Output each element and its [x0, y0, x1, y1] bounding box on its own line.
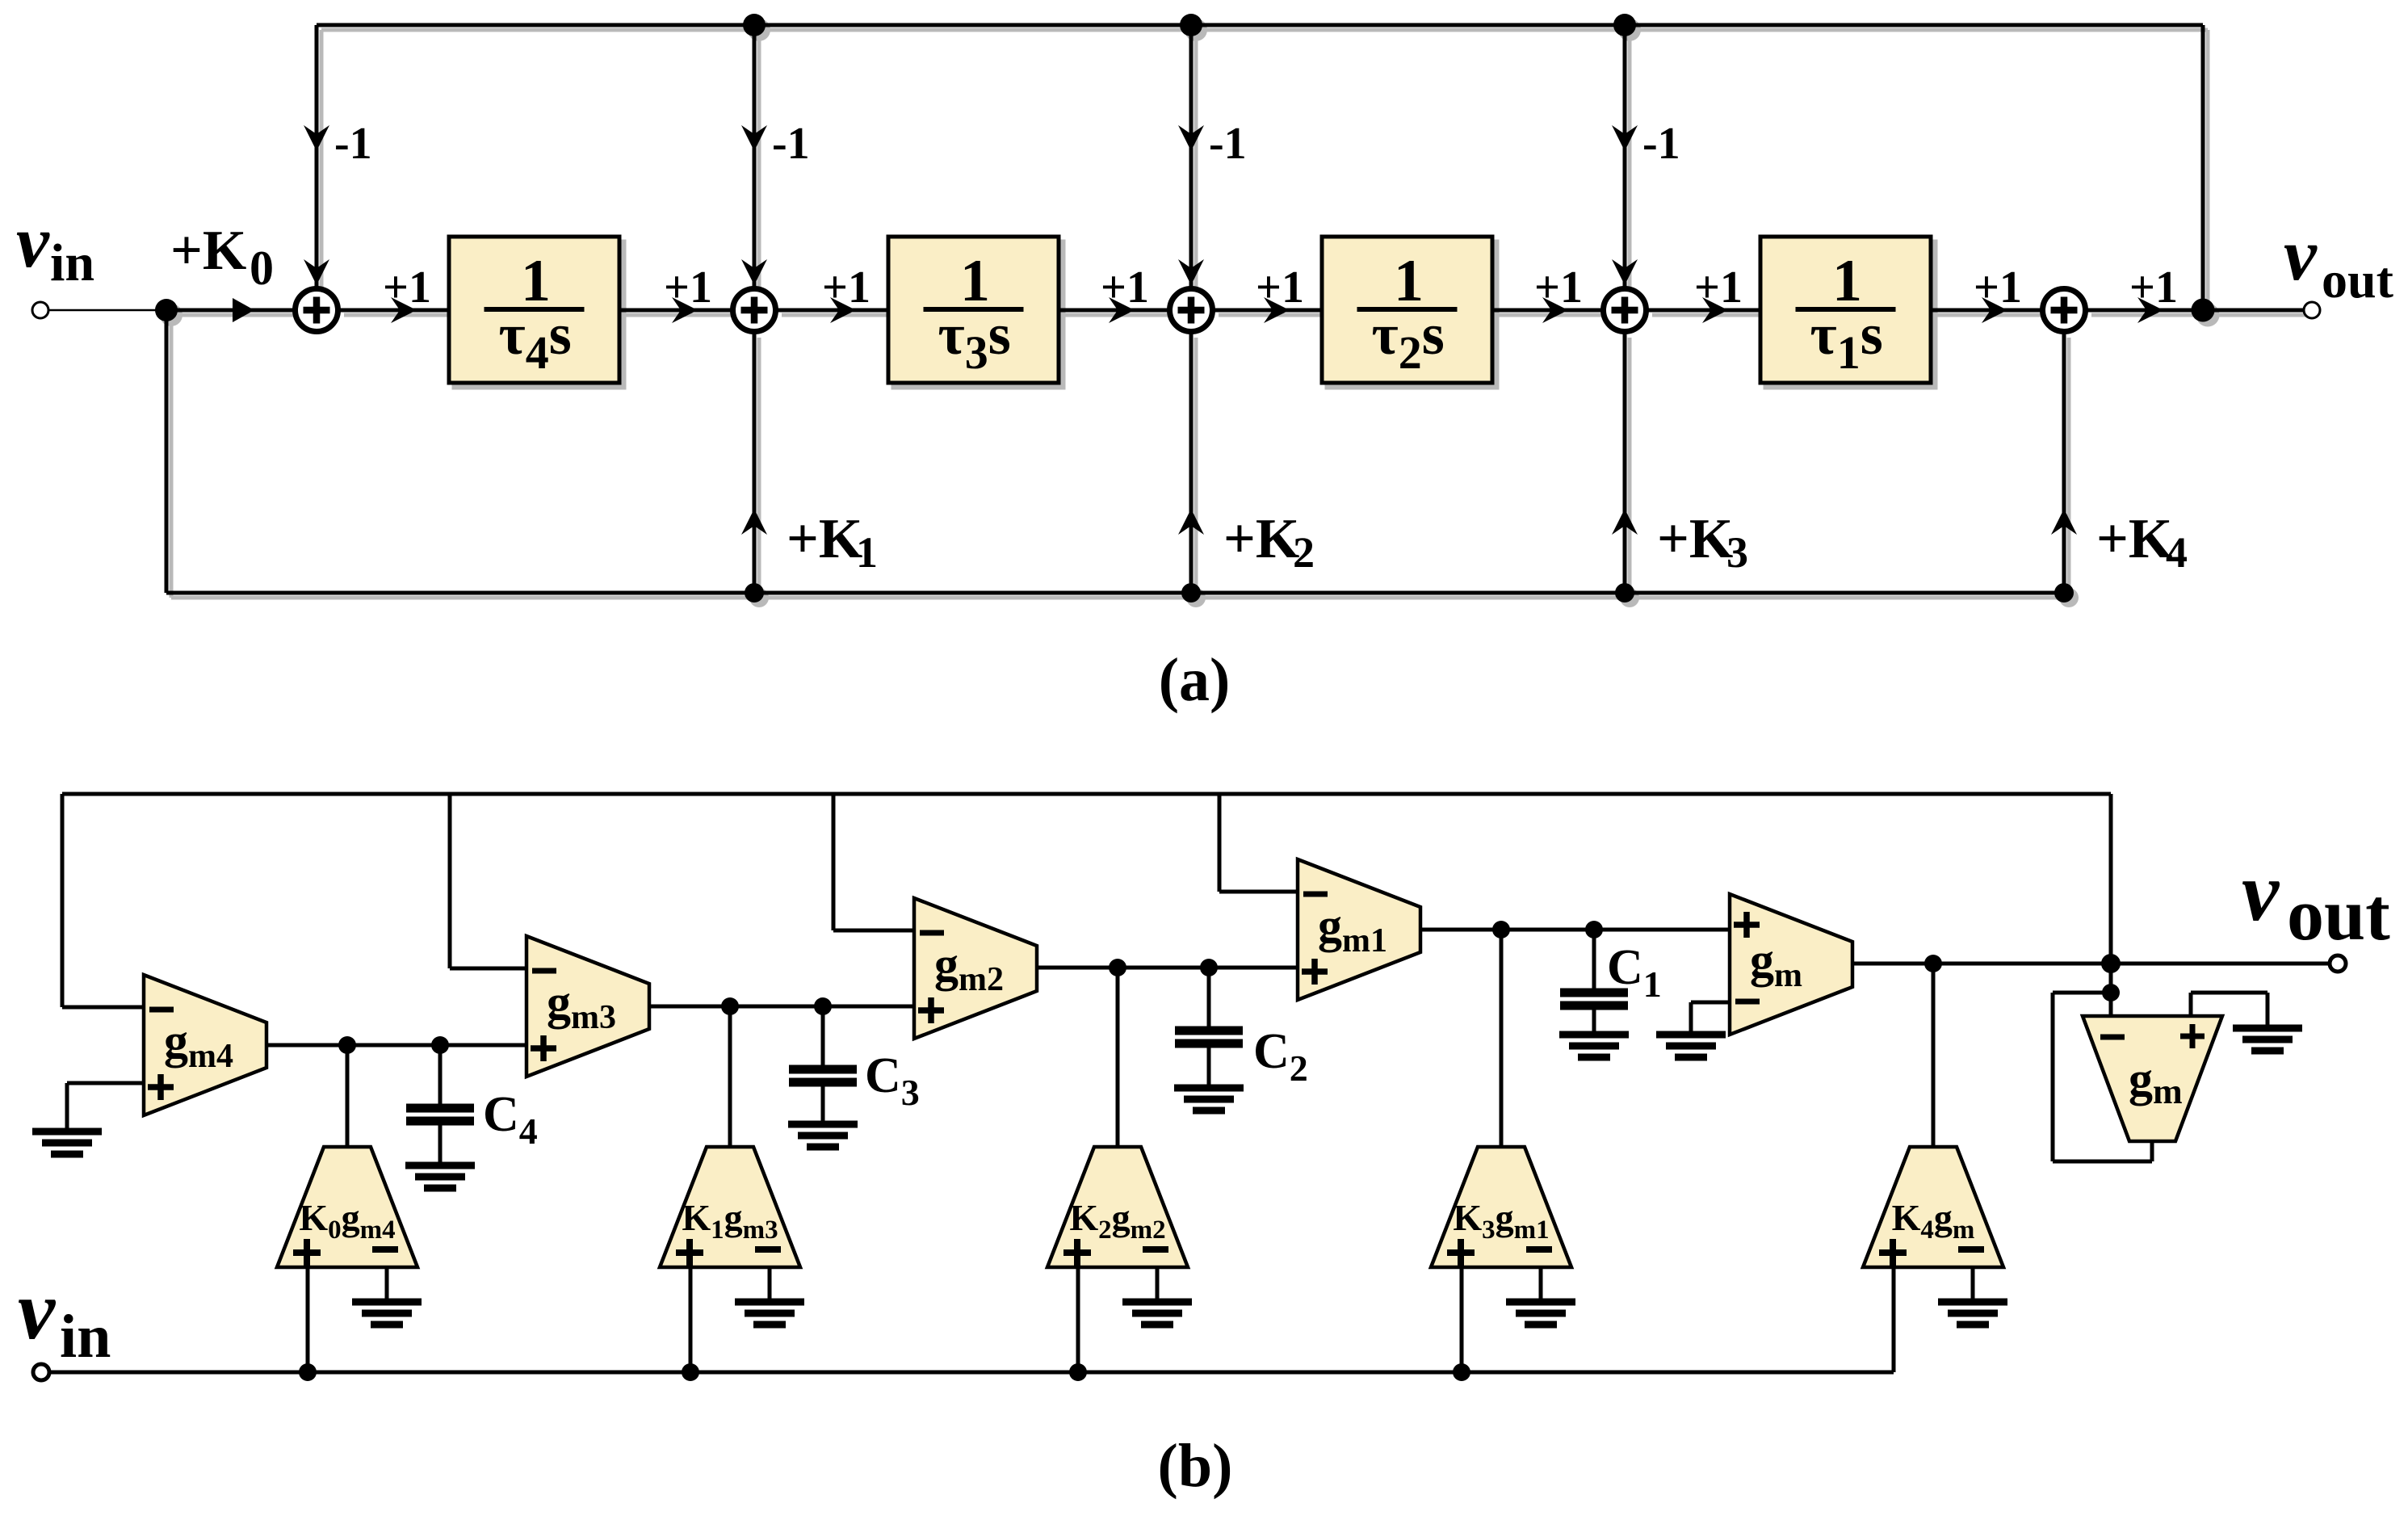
svg-text:(a): (a): [1159, 646, 1231, 714]
svg-text:v: v: [18, 1264, 57, 1357]
svg-text:+1: +1: [383, 262, 431, 313]
svg-text:+K: +K: [2096, 508, 2172, 570]
svg-text:v: v: [2242, 846, 2280, 938]
svg-text:+1: +1: [1256, 262, 1304, 313]
svg-text:+1: +1: [1974, 262, 2022, 313]
svg-text:3: 3: [1726, 528, 1748, 577]
svg-text:+1: +1: [1534, 262, 1583, 313]
svg-text:1: 1: [856, 528, 878, 577]
svg-text:+1: +1: [1101, 262, 1149, 313]
svg-text:0: 0: [250, 241, 274, 295]
svg-text:4: 4: [2166, 528, 2188, 577]
svg-text:+1: +1: [664, 262, 712, 313]
svg-text:+1: +1: [822, 262, 870, 313]
svg-text:v: v: [16, 200, 50, 283]
svg-text:-1: -1: [772, 119, 810, 169]
svg-text:(b): (b): [1158, 1432, 1233, 1500]
svg-text:v: v: [2284, 213, 2318, 296]
svg-text:+K: +K: [787, 508, 862, 570]
svg-text:+K: +K: [1223, 508, 1299, 570]
svg-text:out: out: [2322, 251, 2394, 309]
svg-text:+1: +1: [2129, 262, 2178, 313]
svg-text:in: in: [60, 1303, 111, 1371]
svg-text:+K: +K: [1657, 508, 1733, 570]
svg-text:+1: +1: [1694, 262, 1743, 313]
svg-text:+K: +K: [170, 220, 246, 282]
svg-text:out: out: [2287, 873, 2390, 955]
svg-text:-1: -1: [334, 119, 372, 169]
svg-text:2: 2: [1293, 528, 1315, 577]
svg-text:-1: -1: [1642, 119, 1680, 169]
svg-text:-1: -1: [1209, 119, 1247, 169]
svg-text:in: in: [50, 233, 94, 292]
